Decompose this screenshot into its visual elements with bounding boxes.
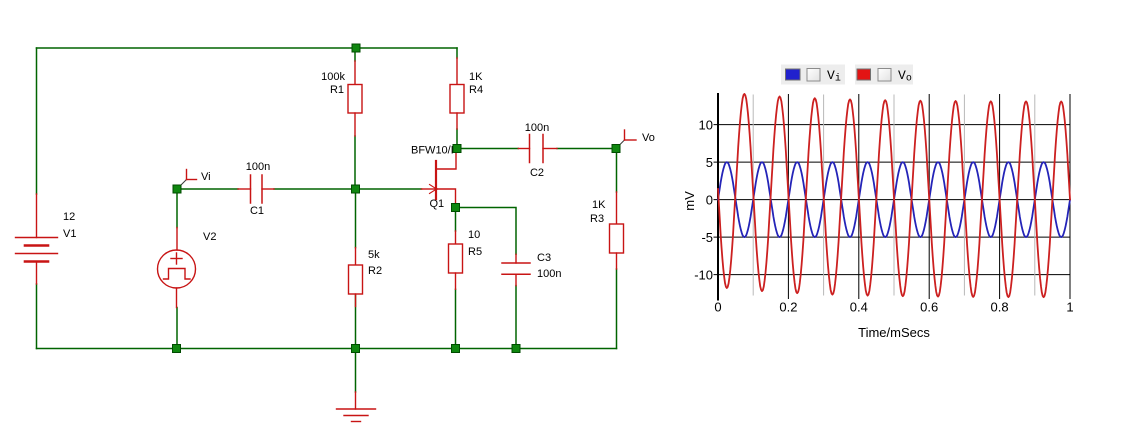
capacitor C2 xyxy=(518,148,529,150)
node Vi input junction xyxy=(173,185,181,193)
svg-text:R1: R1 xyxy=(330,84,344,96)
capacitor C1 xyxy=(238,188,251,190)
svg-text:5: 5 xyxy=(706,155,713,170)
wire ground stem xyxy=(355,349,357,393)
svg-text:1K: 1K xyxy=(469,71,483,83)
wire R4 bottom to drain node xyxy=(456,129,458,148)
legend Vi checkbox xyxy=(807,69,820,82)
capacitor C3 xyxy=(515,254,517,263)
svg-text:1K: 1K xyxy=(592,199,606,211)
svg-text:0.6: 0.6 xyxy=(920,300,938,315)
plot minor vertical gridlines xyxy=(752,95,754,295)
wire left rail lower xyxy=(36,284,38,349)
voltage source V2 xyxy=(176,228,178,250)
probe Vi xyxy=(179,180,187,188)
svg-text:V2: V2 xyxy=(203,231,216,243)
wire R3 to bottom rail xyxy=(616,269,618,349)
wire drain node to C2 xyxy=(457,148,518,150)
plot y-axis xyxy=(717,94,719,300)
svg-text:0: 0 xyxy=(706,193,713,208)
svg-text:Q1: Q1 xyxy=(430,198,445,210)
svg-text:-5: -5 xyxy=(701,230,713,245)
wire C3 to bottom rail xyxy=(515,286,517,349)
transistor Q1 JFET xyxy=(435,161,437,199)
svg-text:12: 12 xyxy=(63,211,75,223)
wire R2 to bottom rail xyxy=(355,295,357,349)
resistor R2 xyxy=(355,248,357,265)
svg-text:100n: 100n xyxy=(537,268,561,280)
wire source node to C3 branch xyxy=(456,208,517,255)
svg-text:Time/mSecs: Time/mSecs xyxy=(858,325,930,340)
svg-text:R2: R2 xyxy=(368,265,382,277)
svg-text:0.4: 0.4 xyxy=(850,300,868,315)
svg-text:Vi: Vi xyxy=(201,171,211,183)
wire gate node to R2 xyxy=(355,189,357,248)
node source junction xyxy=(452,204,460,212)
resistor R1 xyxy=(354,61,356,85)
svg-text:0: 0 xyxy=(714,300,721,315)
svg-text:100n: 100n xyxy=(246,161,270,173)
node V2 ground junction xyxy=(173,345,181,353)
svg-text:1: 1 xyxy=(1066,300,1073,315)
wire Vi node to C1 xyxy=(177,188,238,190)
svg-text:-10: -10 xyxy=(694,268,713,283)
node top rail / R1-R4 junction xyxy=(352,44,360,52)
svg-text:C3: C3 xyxy=(537,252,551,264)
node drain junction xyxy=(453,145,461,153)
node C3 ground junction xyxy=(512,345,520,353)
legend Vi color swatch xyxy=(786,69,801,80)
resistor R5 xyxy=(455,231,457,244)
node gate junction xyxy=(352,185,360,193)
legend panel Vi xyxy=(781,65,845,85)
legend Vo color swatch xyxy=(857,69,871,80)
ground xyxy=(355,392,357,409)
svg-text:R3: R3 xyxy=(590,213,604,225)
wire bottom rail xyxy=(37,348,617,350)
wire left rail upper xyxy=(36,48,38,194)
wire top rail xyxy=(37,47,458,49)
wire V2 to bottom rail xyxy=(176,308,178,349)
node R2 ground junction xyxy=(352,345,360,353)
wire R4 top segment xyxy=(456,48,458,58)
svg-text:R5: R5 xyxy=(468,246,482,258)
legend panel Vo xyxy=(855,65,913,85)
wire Vi node to V2 xyxy=(176,189,178,228)
wire C1 to gate node xyxy=(274,188,355,190)
wire Vo node to R3 xyxy=(616,149,618,193)
wire C2 to Vo node xyxy=(557,148,616,150)
wire source node to R5 xyxy=(455,208,457,232)
legend Vo checkbox xyxy=(878,69,891,82)
svg-text:100n: 100n xyxy=(525,122,549,134)
wire R1 top lead segment xyxy=(354,48,356,61)
waveform Vo red curve xyxy=(718,94,1070,297)
resistor R3 xyxy=(616,192,618,224)
plot major vertical gridlines xyxy=(787,95,789,299)
svg-text:Vo: Vo xyxy=(642,132,655,144)
svg-text:C1: C1 xyxy=(250,205,264,217)
svg-text:C2: C2 xyxy=(530,167,544,179)
svg-text:V1: V1 xyxy=(63,228,76,240)
svg-text:100k: 100k xyxy=(321,71,345,83)
node R5 ground junction xyxy=(452,345,460,353)
plot horizontal gridlines with y ticks xyxy=(714,124,1070,126)
wire gate node to Q1 gate xyxy=(356,188,422,190)
svg-text:5k: 5k xyxy=(368,249,380,261)
resistor R4 xyxy=(456,58,458,85)
battery V1 xyxy=(36,194,38,238)
probe Vo xyxy=(618,140,625,147)
waveform Vi blue curve xyxy=(718,162,1070,237)
svg-text:10: 10 xyxy=(699,118,713,133)
svg-text:R4: R4 xyxy=(469,84,483,96)
svg-text:0.2: 0.2 xyxy=(779,300,797,315)
wire R1 bottom to gate node xyxy=(354,136,356,189)
svg-text:0.8: 0.8 xyxy=(991,300,1009,315)
svg-text:10: 10 xyxy=(468,229,480,241)
svg-text:mV: mV xyxy=(682,191,697,211)
wire R5 to bottom rail xyxy=(455,289,457,348)
node Vo output junction xyxy=(612,145,620,153)
svg-text:BFW10/P: BFW10/P xyxy=(411,145,458,157)
